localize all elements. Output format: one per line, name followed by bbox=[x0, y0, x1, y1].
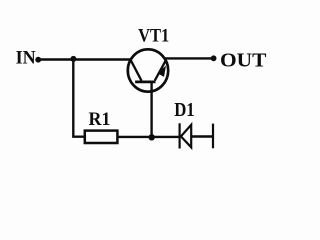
svg-text:OUT: OUT bbox=[220, 50, 267, 71]
node junction top bbox=[70, 56, 76, 62]
resistor R1 body bbox=[85, 131, 118, 143]
svg-text:VT1: VT1 bbox=[138, 24, 169, 45]
diode D1 triangle bbox=[181, 125, 191, 148]
transistor VT1 circle bbox=[128, 49, 168, 91]
node IN terminal dot bbox=[35, 57, 41, 63]
transistor collector line bbox=[131, 60, 142, 80]
wire resistor to diode bbox=[117, 136, 178, 138]
wire base lead bbox=[150, 82, 152, 137]
terminal end bar bbox=[212, 124, 214, 149]
svg-text:D1: D1 bbox=[174, 99, 194, 120]
node OUT terminal dot bbox=[211, 55, 217, 61]
transistor emitter arrow bbox=[157, 66, 166, 77]
transistor emitter line bbox=[155, 61, 166, 81]
diode D1 cathode bar bbox=[179, 123, 181, 148]
wire diode to terminal bar bbox=[191, 135, 212, 137]
svg-text:R1: R1 bbox=[89, 108, 111, 130]
wire vertical drop to resistor bbox=[73, 60, 85, 137]
wire IN to transistor bbox=[40, 58, 132, 60]
svg-text:IN: IN bbox=[16, 47, 37, 69]
transistor base bar bbox=[135, 81, 155, 84]
node junction base bbox=[149, 134, 155, 140]
wire transistor to OUT bbox=[165, 57, 214, 59]
